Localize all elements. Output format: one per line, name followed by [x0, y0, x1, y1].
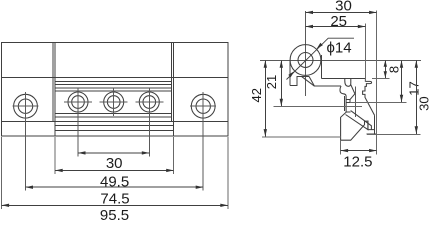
extension 21 bottom — [274, 105, 362, 107]
left mounting hole — [14, 94, 38, 118]
svg-text:49.5: 49.5 — [100, 173, 129, 190]
svg-text:30: 30 — [106, 155, 123, 172]
middle hole 2 centerlines — [100, 88, 128, 116]
dimension 21 — [280, 60, 282, 106]
boss right edge to arm — [320, 55, 322, 78]
right mounting hole — [191, 94, 215, 118]
middle hole 1 centerlines — [64, 88, 92, 156]
full-width lower line — [2, 120, 228, 122]
arm top edge — [321, 77, 365, 79]
middle rib lines upper — [55, 81, 171, 91]
phi14 leader diagonal — [287, 38, 355, 79]
small tab on waist — [346, 100, 350, 103]
boss left tangent edge — [289, 60, 291, 86]
svg-text:42: 42 — [249, 88, 264, 102]
dimension 12.5 — [341, 150, 377, 152]
dimension 42 — [264, 60, 266, 136]
svg-text:25: 25 — [330, 13, 347, 30]
dimension 95.5 — [2, 204, 228, 206]
foot bottom right edge — [367, 133, 377, 135]
extension 42 bottom — [262, 136, 341, 138]
notch wedge line — [302, 76, 315, 86]
dimension 8 — [384, 60, 386, 78]
right staircase — [363, 78, 375, 115]
dimension 74.5 — [26, 186, 204, 188]
body outline — [2, 43, 228, 137]
left hole centerlines — [13, 92, 39, 191]
boss outer circle — [290, 45, 321, 76]
dimension 30 top — [306, 11, 377, 13]
svg-text:8: 8 — [387, 66, 402, 73]
dimension 49.5 — [55, 169, 174, 171]
right hole centerlines — [190, 92, 216, 191]
dimension 30 (front) — [78, 152, 149, 154]
svg-text:21: 21 — [264, 75, 279, 89]
extension line foot left / 12.5 left — [340, 140, 342, 154]
extension line 25 right — [364, 24, 366, 82]
svg-text:95.5: 95.5 — [100, 207, 129, 220]
svg-text:74.5: 74.5 — [100, 190, 129, 207]
phi14 hole — [298, 53, 313, 68]
svg-text:30: 30 — [416, 96, 431, 110]
waist left wall — [340, 86, 346, 112]
dimension 25 — [306, 26, 366, 28]
bottom strip lines — [55, 125, 174, 130]
rounded tab under arm — [345, 78, 351, 86]
extension 8 bottom — [372, 77, 390, 79]
right section divider pair — [171, 43, 173, 137]
middle hole 3 — [139, 92, 159, 112]
boss centerline vertical — [305, 11, 307, 96]
extension line 30top/12.5 right — [376, 11, 378, 155]
boss/part horizontal centerline (extended both sides) — [260, 59, 421, 61]
extension 17 bottom — [350, 102, 407, 104]
phi14 upper arrow — [317, 43, 323, 49]
extension line right edge — [227, 137, 229, 209]
hook lower diagonal — [346, 115, 368, 130]
waist wall inner line — [344, 96, 346, 111]
svg-text:ϕ14: ϕ14 — [327, 40, 352, 57]
middle hole 3 centerlines — [135, 88, 163, 156]
left section divider pair — [53, 43, 55, 137]
waist bottom corner — [346, 111, 351, 113]
extension line strip left — [54, 137, 56, 174]
foot right edge — [374, 115, 376, 134]
svg-text:17: 17 — [406, 81, 421, 95]
hook upper diagonal — [351, 111, 372, 130]
svg-text:12.5: 12.5 — [343, 153, 372, 170]
dimension 17 — [401, 60, 403, 102]
dimension 30 right — [415, 60, 417, 134]
middle rib lines lower — [55, 113, 171, 117]
full-width ledge line — [2, 77, 228, 79]
phi14 lower arrow — [288, 71, 294, 77]
waist grey edge — [354, 86, 356, 117]
spring finger V — [350, 85, 355, 100]
extension line strip right — [173, 137, 175, 174]
bottom notch under boss — [290, 76, 309, 85]
foot outline — [341, 112, 375, 140]
extension line left edge — [1, 137, 3, 209]
middle hole 2 — [104, 92, 124, 112]
middle hole 1 — [68, 92, 88, 112]
extension 30v bottom — [367, 133, 421, 135]
